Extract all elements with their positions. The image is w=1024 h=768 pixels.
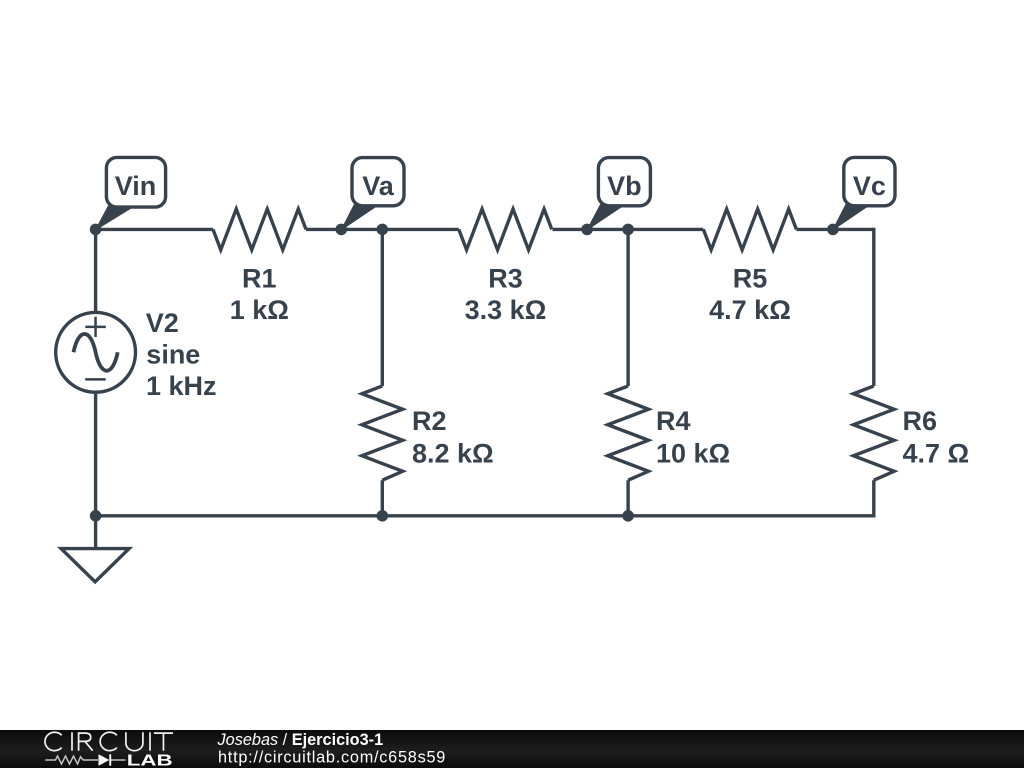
svg-text:1 kHz: 1 kHz — [146, 371, 217, 401]
svg-text:Vb: Vb — [607, 171, 642, 201]
svg-text:R1: R1 — [242, 264, 277, 294]
svg-text:sine: sine — [146, 339, 200, 369]
svg-text:R5: R5 — [733, 264, 768, 294]
svg-text:Vc: Vc — [853, 171, 886, 201]
svg-text:V2: V2 — [146, 308, 179, 338]
svg-text:http://circuitlab.com/c658s59: http://circuitlab.com/c658s59 — [218, 749, 446, 767]
svg-text:LAB: LAB — [127, 753, 173, 768]
svg-text:8.2 kΩ: 8.2 kΩ — [412, 438, 494, 468]
svg-text:4.7 Ω: 4.7 Ω — [903, 438, 970, 468]
svg-text:Josebas / Ejercicio3-1: Josebas / Ejercicio3-1 — [217, 731, 384, 749]
svg-text:Vin: Vin — [115, 171, 157, 201]
svg-text:R3: R3 — [488, 264, 523, 294]
svg-text:R4: R4 — [656, 406, 691, 436]
svg-text:R6: R6 — [903, 406, 938, 436]
svg-text:10 kΩ: 10 kΩ — [656, 438, 730, 468]
svg-text:R2: R2 — [412, 406, 447, 436]
svg-text:4.7 kΩ: 4.7 kΩ — [709, 295, 791, 325]
svg-text:1 kΩ: 1 kΩ — [230, 295, 289, 325]
svg-text:Va: Va — [362, 171, 395, 201]
svg-text:3.3 kΩ: 3.3 kΩ — [465, 295, 547, 325]
